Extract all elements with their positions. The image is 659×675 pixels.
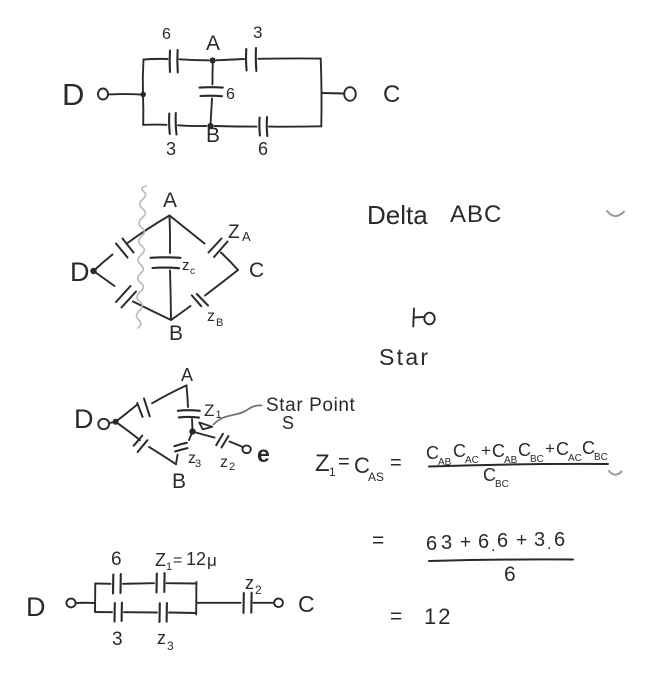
- wire cap to node B circuit3: [149, 447, 176, 464]
- svg-text:6: 6: [111, 549, 122, 570]
- wire apex A down to cap Z1: [186, 385, 188, 407]
- annotation curve to Star Point text: [214, 405, 262, 424]
- label A circuit3: [181, 365, 193, 385]
- wire cap Z1 to star point: [191, 419, 193, 431]
- label c circuit3: [257, 441, 270, 467]
- svg-text:B: B: [172, 470, 186, 493]
- value label 6 (middle cap): [226, 86, 235, 103]
- svg-text:6: 6: [504, 563, 516, 586]
- svg-text:B: B: [216, 317, 223, 329]
- svg-text:6: 6: [162, 26, 171, 43]
- equals sign numeric formula: [372, 529, 384, 552]
- svg-text:Star Point: Star Point: [266, 395, 356, 416]
- wire D terminal to left rail: [109, 93, 142, 96]
- wire top branch left circuit4: [95, 583, 110, 585]
- svg-text:=: =: [372, 529, 384, 552]
- value label Z1 = 12u circuit4: [155, 549, 217, 573]
- wire cap Z2 to terminal C circuit4: [254, 602, 273, 604]
- label C circuit1: [383, 81, 400, 108]
- breve mark right of Delta ABC: [607, 211, 624, 216]
- wire A to cap AC: [170, 216, 205, 244]
- terminal D circuit3: [98, 419, 109, 429]
- capacitor Z2 circuit3: [216, 434, 228, 448]
- capacitor Z1 (A to star point): [178, 410, 200, 417]
- fraction bar numeric formula: [429, 559, 573, 561]
- capacitor C_AB (middle, label Z_c): [151, 257, 181, 268]
- svg-text:+: +: [516, 530, 527, 551]
- svg-text:3: 3: [195, 458, 201, 470]
- equals 12 result: [390, 604, 452, 629]
- svg-text:6: 6: [226, 86, 235, 103]
- text S (star point name): [282, 413, 294, 433]
- node B dot circuit1: [207, 123, 213, 129]
- wire cap DA to node A: [128, 216, 170, 244]
- value label 3 circuit4: [112, 629, 123, 650]
- capacitor value 3 circuit4: [115, 603, 122, 622]
- svg-text:BC: BC: [594, 452, 608, 463]
- value label 6 circuit4: [111, 549, 122, 570]
- svg-text:AC: AC: [568, 453, 582, 464]
- text Star Point: [266, 395, 356, 416]
- svg-text:=: =: [338, 451, 350, 473]
- svg-text:D: D: [62, 77, 84, 112]
- wire D to cap DB circuit3: [116, 422, 140, 440]
- fraction bar formula 1: [429, 464, 608, 467]
- wire bottom branch right circuit4: [169, 612, 196, 615]
- text Delta ABC: [367, 200, 502, 230]
- svg-text:2: 2: [255, 583, 262, 597]
- label D (node D, circuit 1): [62, 77, 84, 112]
- svg-text:+: +: [460, 532, 471, 553]
- denominator 6: [504, 563, 516, 586]
- svg-text:=: =: [173, 552, 182, 569]
- label Z1 circuit3: [204, 401, 222, 421]
- arrowhead triangle pointing to star point: [199, 423, 212, 430]
- svg-text:ABC: ABC: [450, 201, 502, 228]
- svg-text:D: D: [70, 257, 90, 287]
- svg-text:6: 6: [426, 533, 437, 555]
- label Z2 circuit3: [220, 454, 235, 473]
- wire cap3 to right rail: [258, 57, 320, 59]
- wire bottom rail left segment: [143, 124, 166, 126]
- wire top rail left segment: [144, 58, 168, 61]
- terminal D circuit4: [66, 599, 75, 608]
- svg-text:3: 3: [441, 532, 452, 554]
- svg-text:1: 1: [329, 465, 336, 479]
- label Z_c: [182, 257, 195, 277]
- svg-text:3: 3: [534, 529, 545, 551]
- label C circuit4: [298, 591, 315, 617]
- wire node B to cap6br: [215, 125, 257, 128]
- star point node S dot: [189, 428, 195, 434]
- label A circuit2: [163, 189, 177, 212]
- formula denominator C_BC: [483, 465, 509, 490]
- capacitor Z3 (B to star point): [174, 443, 187, 452]
- svg-text:BC: BC: [495, 479, 509, 490]
- svg-text:12: 12: [424, 604, 452, 629]
- wire between caps bottom branch: [124, 611, 157, 613]
- svg-text:C: C: [249, 259, 264, 282]
- svg-text:AS: AS: [368, 470, 384, 484]
- wire bottom-left cap to node B: [178, 124, 206, 127]
- label Z3 circuit3: [188, 450, 201, 470]
- value label 3 (bottom-left cap): [166, 139, 176, 159]
- wire middle cap to node B: [211, 99, 212, 123]
- svg-text:+: +: [545, 439, 555, 458]
- label Z_B: [207, 308, 223, 329]
- value label 6 (bottom-right cap): [258, 139, 268, 159]
- wire bottom branch left circuit4: [95, 611, 112, 613]
- numerator 6 3 + 6.6 + 3.6: [426, 529, 565, 555]
- svg-text:1: 1: [166, 561, 172, 573]
- wire star point to cap Z2: [194, 432, 215, 438]
- svg-text:+: +: [481, 441, 491, 460]
- label A circuit1: [206, 32, 220, 55]
- wire left bracket vertical circuit4: [94, 584, 96, 613]
- svg-text:3: 3: [167, 639, 174, 653]
- svg-text:z: z: [207, 308, 215, 325]
- svg-text:μ: μ: [207, 551, 217, 570]
- terminal C circuit4: [274, 599, 283, 608]
- capacitor C_AC (edge A-C) with label Z_A: [209, 239, 228, 258]
- svg-text:.: .: [547, 536, 551, 553]
- text Star: [379, 344, 430, 370]
- svg-text:z: z: [182, 257, 190, 274]
- wire node A down to middle cap: [211, 64, 213, 85]
- svg-text:A: A: [206, 32, 220, 55]
- capacitor C_DA (edge D-A): [116, 239, 134, 258]
- label Z_A: [228, 222, 251, 244]
- value label 6 (top-left cap): [162, 26, 171, 43]
- wire D to cap DB: [94, 271, 115, 286]
- text to: [413, 309, 434, 327]
- label D circuit4: [26, 592, 46, 622]
- label B circuit2: [169, 322, 183, 345]
- capacitor value 6 circuit4: [113, 574, 121, 594]
- value label 3 (top-right cap): [253, 23, 262, 42]
- svg-text:z: z: [157, 628, 166, 648]
- label B circuit1: [206, 124, 220, 147]
- wire cap BC to node C: [205, 270, 238, 296]
- svg-text:z: z: [220, 454, 228, 471]
- svg-text:=: =: [390, 452, 402, 474]
- node A dot circuit1: [210, 57, 216, 63]
- wire between caps top branch: [123, 582, 154, 585]
- wire cap Z3 to star point: [189, 432, 192, 441]
- svg-text:3: 3: [253, 23, 262, 42]
- wire right bracket vertical circuit4: [195, 582, 197, 615]
- capacitor C_BC (edge B-C): [192, 294, 208, 306]
- svg-text:Z: Z: [228, 222, 240, 243]
- capacitor C_DB (edge D-B): [116, 286, 136, 308]
- wire cap6 to node A: [180, 59, 209, 60]
- capacitor value 6 (bottom-right, circuit 1): [259, 117, 267, 136]
- capacitor value 3 (bottom-left, circuit 1): [169, 113, 176, 135]
- svg-text:.: .: [491, 538, 495, 555]
- label D circuit2: [70, 257, 90, 287]
- svg-text:2: 2: [229, 461, 235, 473]
- wire D to cap DA circuit3: [116, 405, 138, 422]
- node D dot circuit3: [110, 419, 119, 425]
- label C circuit2: [249, 259, 264, 282]
- label D circuit3: [74, 404, 94, 434]
- wire top branch right circuit4: [167, 582, 197, 584]
- svg-text:Z: Z: [315, 450, 330, 477]
- breve mark right of formula: [609, 471, 622, 475]
- svg-text:Z: Z: [155, 550, 166, 570]
- capacitor value 3 (top-right, circuit 1): [246, 48, 256, 71]
- capacitor value 6 (middle vertical, circuit 1): [200, 87, 223, 96]
- capacitor edge D-A circuit3: [137, 399, 150, 418]
- squiggle strike-through mark: [137, 186, 147, 328]
- value label Z2 circuit4: [245, 573, 262, 597]
- wire D terminal to left bracket: [76, 602, 95, 604]
- svg-text:D: D: [26, 592, 46, 622]
- capacitor Z2 circuit4: [244, 593, 252, 613]
- wire cap6br to right rail bottom: [269, 125, 321, 127]
- wire right rail to terminal C: [322, 92, 344, 95]
- svg-text:S: S: [282, 413, 294, 433]
- svg-text:6: 6: [497, 530, 508, 552]
- value label Z3 circuit4: [157, 628, 174, 653]
- svg-text:e: e: [257, 441, 270, 467]
- terminal c circuit3: [242, 445, 250, 453]
- svg-text:Z: Z: [204, 401, 214, 420]
- label B circuit3: [172, 470, 186, 493]
- wire left rail vertical: [142, 60, 145, 125]
- svg-text:=: =: [390, 605, 402, 628]
- wire cap Z2 to terminal c: [230, 442, 242, 447]
- wire A to middle cap circuit2: [169, 216, 172, 254]
- wire cap to apex A circuit3: [152, 385, 186, 403]
- svg-text:6: 6: [258, 139, 268, 159]
- wire cap AC to node C: [221, 253, 238, 271]
- svg-text:12: 12: [186, 549, 206, 569]
- wire middle cap to node B circuit2: [170, 271, 171, 321]
- wire cap DB to node B: [133, 302, 171, 321]
- capacitor Z1 circuit4: [157, 573, 165, 593]
- svg-text:Star: Star: [379, 344, 430, 370]
- node D dot circuit2: [90, 268, 96, 274]
- svg-text:C: C: [383, 81, 400, 108]
- wire node A to cap3: [217, 59, 245, 60]
- wire right rail vertical: [320, 59, 323, 127]
- junction dot left rail: [140, 92, 146, 98]
- svg-text:D: D: [74, 404, 94, 434]
- svg-text:A: A: [163, 189, 177, 212]
- svg-text:Delta: Delta: [367, 200, 428, 230]
- svg-text:c: c: [190, 266, 195, 277]
- terminal C circuit1: [344, 87, 356, 101]
- svg-text:3: 3: [166, 139, 176, 159]
- wire B to cap BC: [171, 306, 191, 320]
- wire right bracket to cap Z2 circuit4: [196, 602, 240, 604]
- terminal D circuit1: [98, 89, 108, 100]
- svg-text:A: A: [181, 365, 193, 385]
- svg-text:B: B: [206, 124, 220, 147]
- svg-text:B: B: [169, 322, 183, 345]
- wire D to cap DA: [94, 255, 113, 272]
- formula lhs Z1 = C_AS =: [315, 450, 402, 484]
- svg-text:6: 6: [554, 529, 565, 551]
- svg-text:3: 3: [112, 629, 123, 650]
- wire B to cap Z3: [176, 455, 178, 465]
- svg-text:C: C: [298, 591, 315, 617]
- svg-text:6: 6: [478, 531, 489, 553]
- capacitor edge D-B circuit3: [134, 436, 148, 452]
- formula numerator C_AB C_AC + C_AB C_BC + C_AC C_BC: [426, 438, 608, 468]
- svg-text:z: z: [245, 573, 254, 593]
- svg-text:A: A: [242, 229, 251, 244]
- capacitor value 6 (top-left, circuit 1): [170, 50, 178, 73]
- capacitor Z3 circuit4: [160, 603, 167, 622]
